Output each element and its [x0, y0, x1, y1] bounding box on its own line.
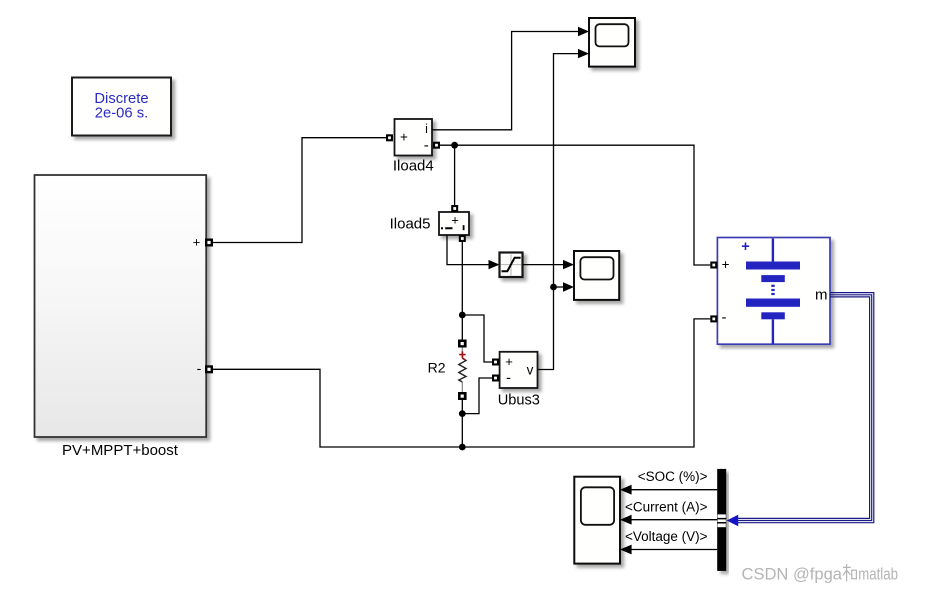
wire PV+ to Iload4 + — [213, 138, 386, 243]
svg-text:+: + — [400, 130, 408, 145]
svg-text:Iload4: Iload4 — [393, 158, 434, 175]
resistor R2 — [428, 340, 467, 401]
wire node C to Ubus3 + port — [462, 315, 492, 362]
Iload4 input + port square — [386, 134, 393, 141]
wire bus selector out 1 (SOC) to Scope3 — [620, 469, 717, 495]
svg-text:-: - — [197, 360, 202, 376]
svg-text:+: + — [505, 354, 513, 369]
bus selector — [717, 469, 726, 571]
wire Saturation output to Scope2 input 1 — [523, 260, 575, 269]
scope Scope1 — [589, 18, 635, 67]
junction node A (Iload4 - / Iload5 +) — [451, 142, 458, 149]
wire Iload4 - output to Battery + port — [440, 145, 710, 265]
R2 red polarity mark — [459, 351, 465, 359]
Battery - port square — [710, 315, 717, 322]
svg-text:PV+MPPT+boost: PV+MPPT+boost — [62, 442, 179, 459]
svg-text:CSDN @fpga: CSDN @fpga — [742, 565, 843, 584]
wire bus selector out 3 (Voltage) to Scope3 — [620, 529, 717, 554]
battery symbol plates — [772, 239, 774, 262]
svg-text:+: + — [193, 234, 201, 249]
svg-text:+: + — [741, 239, 749, 255]
Battery + port square — [710, 262, 717, 269]
junction node E on bottom rail — [459, 444, 466, 451]
wire Iload5 i output to Saturation input — [447, 235, 500, 269]
wire bus selector out 2 (Current) to Scope3 — [620, 499, 717, 524]
Ubus3 - port square — [492, 375, 499, 382]
svg-text:<Voltage (V)>: <Voltage (V)> — [625, 529, 708, 544]
svg-text:matlab: matlab — [858, 565, 898, 584]
scope Scope2 — [574, 251, 619, 300]
svg-text:-: - — [424, 137, 429, 154]
Ubus3 + port square — [492, 359, 499, 366]
svg-text:v: v — [527, 363, 534, 378]
svg-text:-: - — [506, 369, 511, 386]
watermark CSDN — [742, 564, 899, 584]
wire node B to Scope2 input 2 — [554, 282, 575, 291]
wire PV - to Battery - (bottom rail) — [213, 319, 710, 447]
wire Ubus3 v output up to Scope1 input 2 — [538, 49, 590, 370]
svg-text:+: + — [451, 213, 459, 228]
svg-text:Ubus3: Ubus3 — [498, 393, 540, 409]
junction node B on Ubus3 v wire — [550, 284, 557, 291]
svg-text:+: + — [722, 257, 730, 272]
wire Iload4 i output to Scope1 input 1 — [432, 27, 589, 130]
powergui block U_powergui "Discrete 2e-06 s." — [72, 78, 171, 136]
saturation block U2 — [500, 253, 523, 278]
battery Battery1 — [717, 238, 830, 345]
wire node A down to Iload5 + port — [454, 145, 456, 205]
voltage measurement Ubus3 — [498, 352, 540, 409]
svg-text:<Current (A)>: <Current (A)> — [625, 499, 708, 514]
current measurement Iload4 — [393, 119, 434, 175]
bus arrow into Bus Selector — [727, 515, 739, 526]
svg-text:R2: R2 — [428, 360, 446, 376]
Iload5 bottom - port square — [459, 235, 466, 242]
svg-text:m: m — [815, 287, 828, 304]
current measurement Iload5 — [390, 212, 469, 235]
wire Iload5 - down through R2 to bottom rail — [461, 242, 463, 447]
svg-text:-: - — [722, 309, 727, 326]
wire Ubus3 - port to node D — [462, 378, 492, 414]
svg-text:<SOC (%)>: <SOC (%)> — [638, 469, 708, 484]
svg-text:i: i — [425, 122, 428, 136]
Iload4 output - port square — [433, 142, 440, 149]
PV - port (pin 2) — [197, 360, 213, 376]
scope Scope3 (flipped, 3 inputs) — [574, 477, 620, 564]
svg-text:Iload5: Iload5 — [390, 216, 431, 233]
junction node C (to Ubus3 +) — [459, 312, 466, 319]
Iload5 top + port square — [451, 205, 458, 212]
junction node D (R2 bottom / Ubus3 -) — [459, 410, 466, 417]
bus wire Battery m to Bus Selector (triple line) — [738, 293, 874, 523]
subsystem U1 PV+MPPT+boost — [35, 175, 207, 459]
svg-text:2e-06 s.: 2e-06 s. — [95, 106, 148, 122]
PV + port (pin 1) — [193, 234, 213, 249]
